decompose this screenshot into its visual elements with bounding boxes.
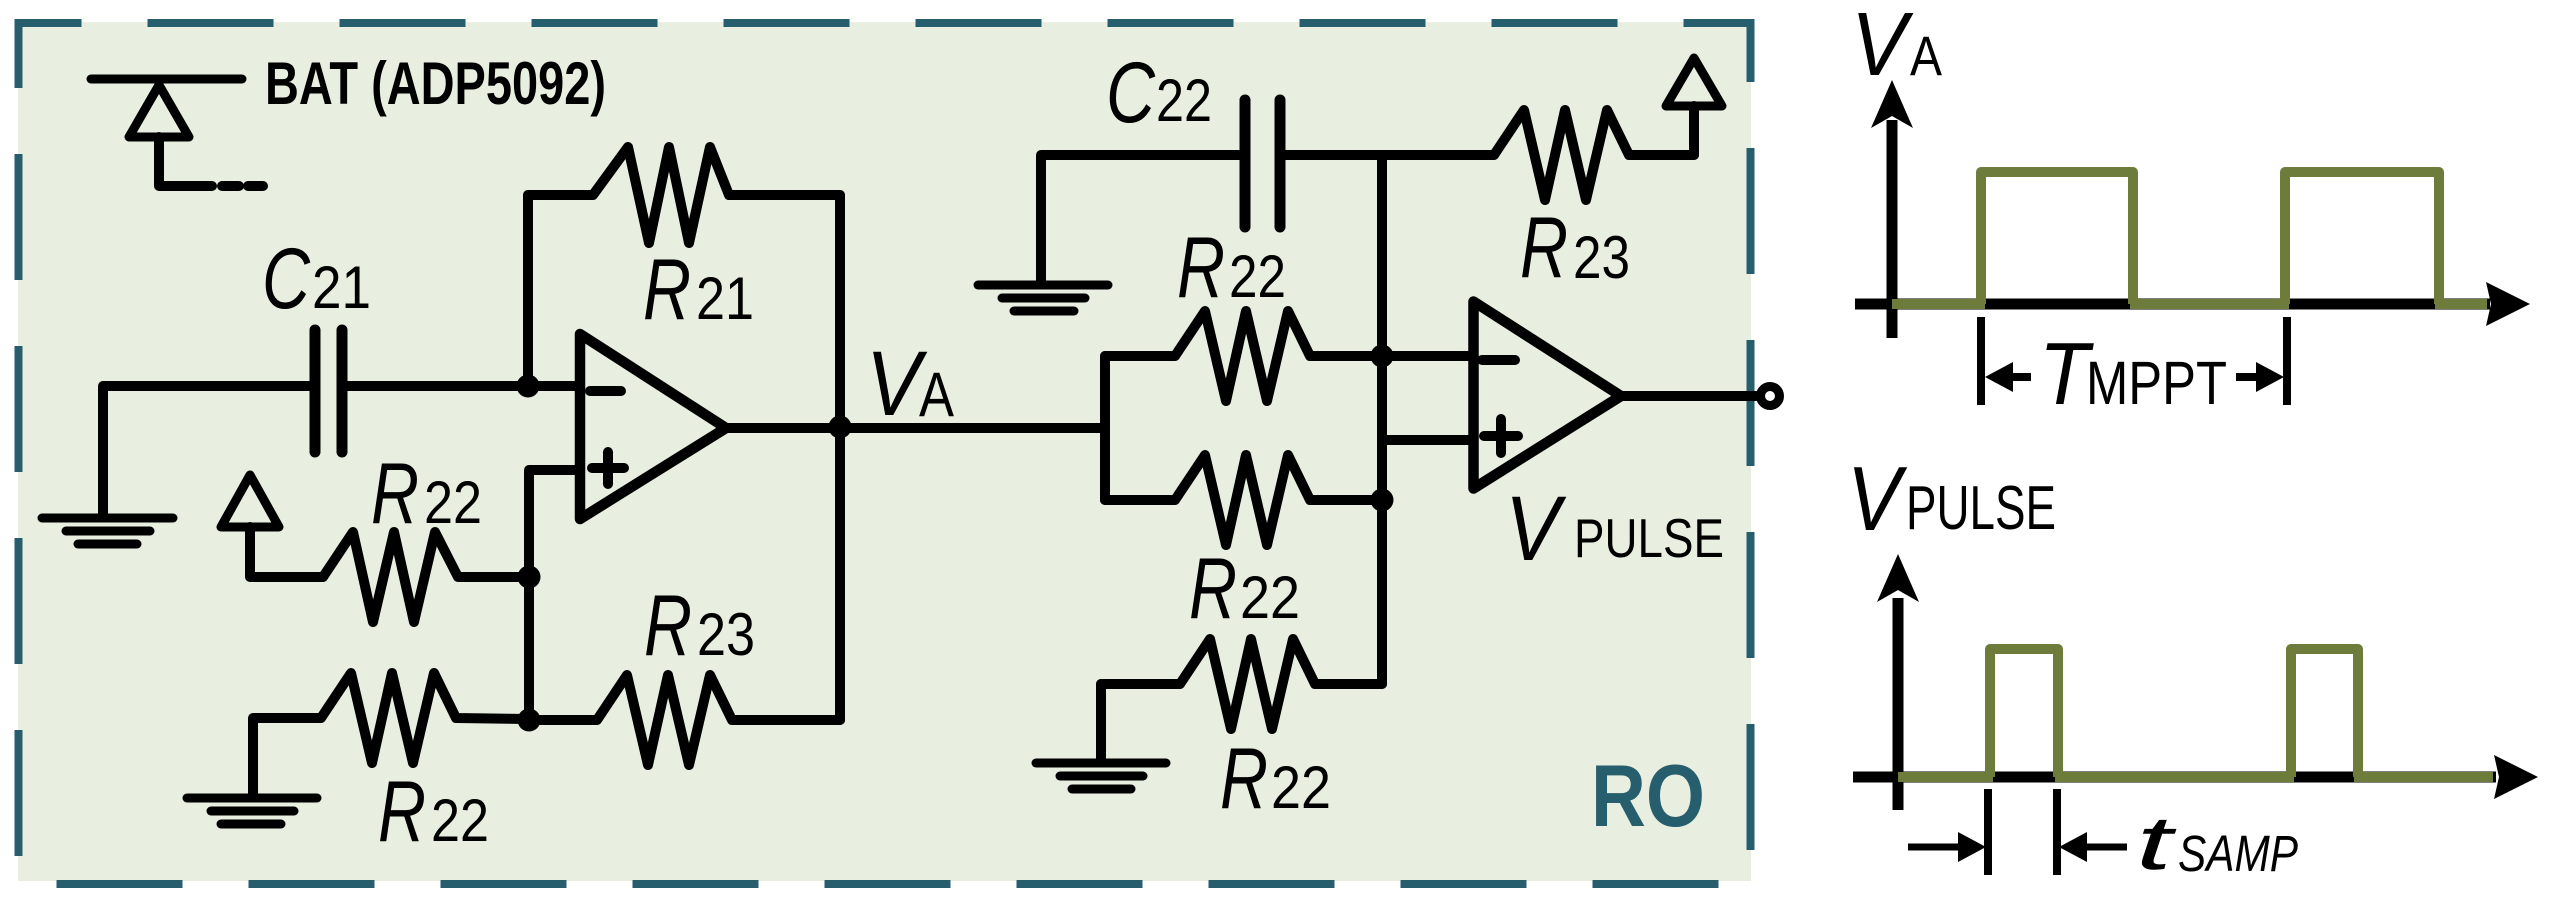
waveform VA trace xyxy=(1892,172,2487,304)
resistor R21 xyxy=(528,147,840,243)
dimension TMPPT xyxy=(1981,317,2287,405)
svg-text:21: 21 xyxy=(312,254,371,321)
svg-text:21: 21 xyxy=(696,265,754,332)
node R23 left xyxy=(518,709,541,732)
x-axis VPULSE xyxy=(1853,772,2496,783)
node minus U2 xyxy=(1371,345,1394,368)
wire C22 right to R23 xyxy=(1280,150,1494,160)
wire U2 output xyxy=(1621,391,1758,401)
wire node VA xyxy=(840,423,1105,433)
wire A2 stem xyxy=(250,527,323,577)
svg-text:A: A xyxy=(1910,24,1943,87)
svg-text:22: 22 xyxy=(1156,67,1212,134)
svg-text:R: R xyxy=(1189,541,1237,637)
waveform VPULSE plot xyxy=(1847,449,2538,886)
dimension tSAMP xyxy=(1908,789,2127,875)
resistor R22 bottom-left xyxy=(253,673,529,797)
node minus U1 xyxy=(517,375,540,398)
BAT supply arrow xyxy=(129,85,189,137)
ground G4 xyxy=(1036,759,1166,768)
node plus U2 xyxy=(1371,489,1394,512)
svg-text:t: t xyxy=(2136,801,2177,886)
x-axis VA xyxy=(1855,299,2490,310)
supply arrow A3 xyxy=(1666,58,1722,106)
svg-text:R: R xyxy=(371,446,419,542)
resistor R22 mid-left xyxy=(323,532,529,622)
svg-text:22: 22 xyxy=(1271,754,1331,821)
wire mid vertical net xyxy=(1377,155,1387,684)
svg-text:C: C xyxy=(1106,45,1156,141)
BAT supply bar xyxy=(91,75,242,84)
svg-text:R: R xyxy=(1177,220,1225,316)
svg-text:22: 22 xyxy=(431,787,489,854)
capacitor C22 xyxy=(1240,100,1251,227)
svg-text:SAMP: SAMP xyxy=(2178,825,2298,882)
wire BAT stem xyxy=(159,137,212,186)
capacitor C21 xyxy=(310,330,321,452)
terminal VPULSE xyxy=(1761,387,1780,406)
ground G2 xyxy=(187,794,317,803)
svg-text:22: 22 xyxy=(1229,243,1286,310)
resistor R23 bottom-left xyxy=(529,675,840,765)
RO block dashed border xyxy=(19,23,1751,884)
wire C22 left xyxy=(1041,155,1240,281)
ground G3 xyxy=(978,281,1108,290)
op-amp U2 xyxy=(1474,302,1622,489)
node U1 out xyxy=(829,416,852,439)
op-amp U1 xyxy=(580,334,726,519)
wire mid input tee xyxy=(1100,356,1110,500)
supply arrow A2 xyxy=(221,475,279,527)
svg-text:V: V xyxy=(1847,449,1907,550)
svg-text:C: C xyxy=(262,231,311,327)
svg-text:BAT (ADP5092): BAT (ADP5092) xyxy=(265,50,606,117)
svg-text:R: R xyxy=(643,242,691,338)
svg-text:PULSE: PULSE xyxy=(1906,474,2056,543)
resistor R22 lower-middle xyxy=(1105,455,1382,545)
wire plus input U1 xyxy=(529,470,580,720)
svg-text:V: V xyxy=(1851,0,1914,95)
svg-text:R: R xyxy=(378,764,426,860)
svg-text:22: 22 xyxy=(424,469,482,536)
ground G1 xyxy=(42,514,173,523)
wire R21 right vertical xyxy=(835,195,845,720)
resistor R23 top-right xyxy=(1494,110,1694,200)
wire BAT dashes xyxy=(222,181,239,191)
resistor R22 bottom-middle xyxy=(1101,639,1382,729)
svg-text:MPPT: MPPT xyxy=(2086,349,2227,417)
y-axis VPULSE xyxy=(1893,598,1904,810)
svg-text:22: 22 xyxy=(1240,564,1300,631)
wire C21 left xyxy=(103,386,310,514)
wire U1 output xyxy=(726,423,840,433)
svg-text:R: R xyxy=(1520,200,1568,296)
RO block background xyxy=(18,22,1751,881)
svg-text:R: R xyxy=(644,578,692,674)
wire A3 stem xyxy=(1689,106,1699,155)
svg-text:V: V xyxy=(1505,478,1567,580)
junction dots xyxy=(517,345,1394,732)
wire minus node up to R21 xyxy=(523,195,533,386)
svg-text:PULSE: PULSE xyxy=(1574,507,1724,569)
wire G4 stem xyxy=(1096,684,1106,761)
wire plus input U2 xyxy=(1382,435,1473,445)
svg-text:RO: RO xyxy=(1591,746,1705,845)
circuit labels xyxy=(262,45,1724,860)
svg-text:23: 23 xyxy=(697,601,755,668)
wire C21 to op-amp minus xyxy=(342,381,580,391)
waveform VA plot xyxy=(1851,0,2530,423)
resistor R22 upper-middle xyxy=(1105,311,1473,401)
y-axis VA xyxy=(1887,120,1898,338)
node plus U1 xyxy=(518,566,541,589)
svg-text:A: A xyxy=(919,360,954,430)
waveform VPULSE trace xyxy=(1898,649,2493,777)
svg-text:23: 23 xyxy=(1573,224,1630,291)
svg-text:R: R xyxy=(1220,731,1268,827)
